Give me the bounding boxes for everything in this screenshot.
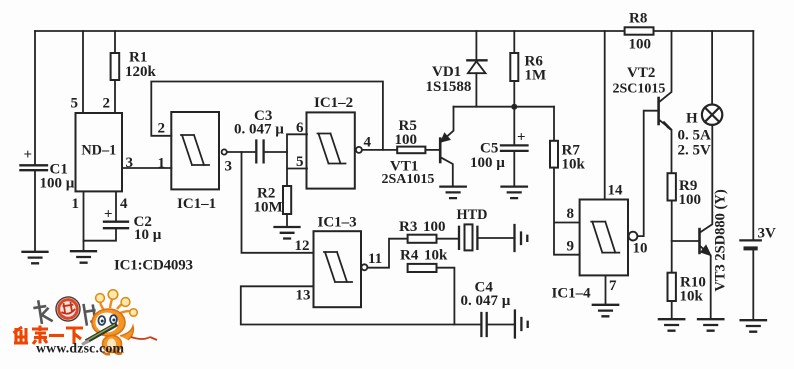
- svg-text:0. 047 µ: 0. 047 µ: [234, 122, 284, 138]
- resistor R6 1M: [510, 53, 546, 84]
- svg-text:+: +: [517, 130, 526, 146]
- ground under VT1: [440, 187, 465, 199]
- svg-text:10k: 10k: [680, 289, 704, 305]
- svg-text:1M: 1M: [525, 68, 547, 84]
- wire R2 to ground: [286, 214, 288, 227]
- svg-text:ND–1: ND–1: [81, 143, 116, 159]
- resistor R8 100: [625, 11, 654, 53]
- wire rail to R1: [114, 31, 116, 53]
- svg-text:VT2: VT2: [627, 65, 655, 81]
- svg-text:100 µ: 100 µ: [40, 176, 75, 192]
- svg-text:4: 4: [364, 135, 372, 151]
- svg-text:8: 8: [567, 206, 575, 222]
- watermark mascot eyes: [98, 315, 117, 330]
- svg-text:10k: 10k: [562, 157, 586, 173]
- svg-text:100: 100: [679, 192, 702, 208]
- svg-text:0. 047 µ: 0. 047 µ: [461, 293, 511, 309]
- capacitor C3 0.047u: [234, 108, 284, 162]
- svg-text:IC1:CD4093: IC1:CD4093: [114, 258, 193, 274]
- wire R3 to HTD: [437, 238, 459, 240]
- ground under VT3: [698, 319, 723, 331]
- svg-text:1: 1: [158, 156, 166, 172]
- watermark text zhao (找) gray: [32, 299, 53, 325]
- watermark mascot pen: [82, 324, 117, 345]
- wire left branch from rail to C1: [34, 31, 36, 165]
- svg-text:+: +: [104, 207, 113, 223]
- wire IC1-4 pin7 to ground: [605, 275, 607, 304]
- svg-text:1: 1: [72, 196, 80, 212]
- wire rail to R6: [513, 31, 515, 53]
- wire ND-1 pin4 to C2: [115, 191, 117, 221]
- wire rail to lamp: [711, 31, 713, 105]
- wire R5 to VT1 base: [425, 149, 439, 151]
- watermark magnifier with chip char: [54, 295, 81, 322]
- watermark mascot antenna balls: [96, 290, 138, 317]
- ground under pin7: [593, 305, 618, 317]
- wire storage node horizontal: [454, 106, 555, 108]
- svg-text:10k: 10k: [424, 248, 448, 264]
- svg-text:HTD: HTD: [457, 207, 488, 223]
- oscillator module ND-1: [76, 113, 123, 191]
- watermark text pian (片) gray: [83, 302, 97, 325]
- svg-text:2: 2: [103, 96, 111, 112]
- transistor VT1 2SA1015 (PNP): [382, 107, 454, 187]
- svg-text:H: H: [686, 111, 698, 127]
- svg-text:www.dzsc.com: www.dzsc.com: [36, 341, 125, 356]
- svg-text:10M: 10M: [254, 200, 283, 216]
- capacitor C1 100u: [20, 147, 74, 192]
- svg-text:VT3 2SD880 (Y): VT3 2SD880 (Y): [713, 189, 729, 291]
- lamp H: [678, 105, 723, 159]
- wire battery to ground: [752, 248, 754, 320]
- svg-text:2. 5V: 2. 5V: [678, 143, 712, 159]
- wire IC1-1 output node 3 to C3: [227, 151, 256, 153]
- ground under R2: [275, 227, 300, 239]
- wire IC1-4 pin14 to rail: [604, 31, 606, 200]
- wire IC1-3 pin13 to bottom feedback line: [241, 286, 481, 324]
- wire ND-1 pin3 to IC1-1 pin1: [122, 167, 171, 169]
- touch terminal after HTD: [515, 225, 528, 251]
- svg-text:2: 2: [158, 121, 166, 137]
- wire ND-1 pin1 to ground: [83, 191, 85, 251]
- wire VD1 anode to storage node: [475, 73, 477, 107]
- transistor VT2 2SC1015 (NPN): [613, 31, 672, 173]
- wire IC1-3 output to R3/R4 bracket: [367, 239, 407, 268]
- gate IC1-4: [552, 200, 638, 302]
- resistor R7 10k: [550, 141, 586, 173]
- svg-text:VD1: VD1: [432, 64, 461, 80]
- svg-text:0. 5A: 0. 5A: [678, 128, 712, 144]
- svg-text:R3: R3: [399, 219, 417, 235]
- transistor VT3 2SD880 (NPN): [700, 125, 713, 319]
- svg-text:14: 14: [608, 183, 624, 199]
- wire C5 to ground: [513, 151, 515, 186]
- gate IC1-2: [307, 95, 362, 189]
- svg-text:11: 11: [368, 251, 382, 267]
- resistor R10 10k: [668, 273, 706, 305]
- wire R4 to C4 branch: [437, 268, 455, 325]
- svg-text:R4: R4: [400, 248, 419, 264]
- svg-text:100: 100: [423, 219, 446, 235]
- wire node to C5: [513, 107, 515, 145]
- resistor R5 100: [395, 118, 426, 153]
- resistor R1 120k: [111, 50, 157, 81]
- gate IC1-3: [314, 215, 368, 308]
- resistor R2 10M: [254, 186, 292, 216]
- wire C4 to touch terminal: [487, 324, 514, 326]
- watermark mascot head: [92, 309, 125, 336]
- svg-text:R8: R8: [629, 11, 647, 27]
- wire ND-1 pin5 to rail: [82, 31, 84, 113]
- gate IC1-1: [171, 112, 226, 212]
- ground under C1: [23, 252, 48, 263]
- resistor R3 100: [399, 219, 446, 243]
- svg-text:9: 9: [567, 239, 575, 255]
- svg-text:+: +: [24, 147, 33, 163]
- ground under R10: [659, 319, 684, 331]
- wire node 3 down to IC1-3 pin12: [242, 152, 314, 253]
- svg-text:120k: 120k: [125, 64, 157, 80]
- capacitor C5 100u: [470, 130, 528, 172]
- resistor R4 10k: [400, 248, 448, 273]
- svg-text:5: 5: [296, 154, 304, 170]
- resistor R9 100: [668, 173, 702, 208]
- wire R7 to IC1-4 input bracket pins 8,9: [554, 168, 580, 255]
- svg-text:2SC1015: 2SC1015: [613, 82, 666, 97]
- wire R1 to ND-1 pin2: [114, 80, 116, 113]
- piezo sounder HTD: [457, 207, 488, 250]
- ground under ND-1 pin1: [71, 251, 96, 263]
- ground under C5: [502, 187, 527, 199]
- ground under battery: [741, 320, 766, 332]
- watermark text weikuyixia (维库一下) orange: [14, 326, 84, 345]
- wire VT3 base: [672, 240, 699, 242]
- diode VD1 1S1588: [426, 60, 487, 95]
- wire IC1-2 input bracket (pins 6,5): [287, 134, 307, 186]
- svg-text:IC1–4: IC1–4: [552, 286, 592, 302]
- svg-text:IC1–2: IC1–2: [314, 95, 353, 111]
- wire IC1-2 output to R5: [362, 149, 397, 151]
- svg-text:2SA1015: 2SA1015: [382, 172, 435, 187]
- svg-text:IC1–3: IC1–3: [318, 215, 357, 231]
- wire IC1-4 output up to VT2 base: [637, 111, 657, 236]
- wire R9 to R10 with VT3 base tap: [671, 201, 673, 273]
- svg-text:10 µ: 10 µ: [134, 227, 162, 243]
- wire R10 to ground: [671, 301, 673, 319]
- wire rail to VD1: [475, 31, 477, 60]
- wire C3 to IC1-2 input bracket: [264, 151, 287, 153]
- wire C1 to ground: [34, 170, 36, 252]
- wire top supply rail left of R8: [35, 30, 625, 32]
- watermark mascot face: [96, 313, 119, 333]
- battery 3V: [740, 31, 776, 248]
- svg-text:100: 100: [395, 132, 418, 148]
- svg-text:13: 13: [296, 288, 311, 304]
- svg-text:1S1588: 1S1588: [426, 79, 472, 95]
- wire C2 bottom to pin1 ground branch: [84, 228, 117, 241]
- wire R6 to storage node: [513, 81, 515, 107]
- node junction dot: [511, 104, 517, 110]
- watermark mascot antennae: [100, 297, 132, 313]
- svg-text:4: 4: [120, 196, 128, 212]
- wire node to R7: [553, 107, 555, 141]
- svg-text:100: 100: [629, 37, 652, 53]
- capacitor C4 0.047u: [461, 280, 511, 337]
- touch terminal after C4: [515, 311, 528, 338]
- wire HTD to touch terminal: [477, 237, 513, 239]
- watermark mascot body: [103, 326, 158, 354]
- svg-text:6: 6: [296, 120, 304, 136]
- svg-text:10: 10: [633, 241, 648, 257]
- svg-text:12: 12: [295, 238, 310, 254]
- svg-text:3: 3: [225, 159, 233, 175]
- wire feedback IC1-2 output to IC1-1 pin2: [151, 82, 383, 150]
- svg-text:IC1–1: IC1–1: [177, 196, 216, 212]
- capacitor C2 10u: [104, 207, 162, 244]
- svg-text:7: 7: [609, 278, 617, 294]
- watermark logo dzsc: [14, 290, 158, 356]
- wire top supply rail right of R8: [654, 30, 754, 32]
- svg-text:100 µ: 100 µ: [470, 155, 505, 171]
- svg-text:5: 5: [71, 96, 79, 112]
- svg-text:3V: 3V: [758, 226, 777, 242]
